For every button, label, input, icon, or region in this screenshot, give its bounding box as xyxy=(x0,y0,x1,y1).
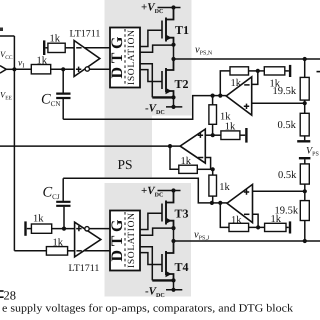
wire: U3 minus input step xyxy=(205,158,210,170)
wire: cutoff comparator tip to node xyxy=(6,68,14,70)
U5 input polarity symbols xyxy=(244,189,250,214)
polarity dash at right edge xyxy=(317,71,320,73)
DTG bottom dashed divider xyxy=(124,212,126,269)
svg-text:T4: T4 xyxy=(175,260,189,274)
ground bar for R2 xyxy=(43,40,45,55)
wire: R1 to op-amp U1 + input, C_CN tap xyxy=(51,68,74,70)
resistor R10 1k U4 ground leg xyxy=(264,67,285,75)
wire: C_CN top lead xyxy=(62,69,64,92)
wire: input comparator box top edge xyxy=(0,35,14,37)
svg-text:e supply voltages for op-amps,: e supply voltages for op-amps, comparato… xyxy=(2,303,294,315)
wire: U3 feedback loop down-left xyxy=(170,146,179,169)
transistor T2 (NMOS lower of top half-bridge) xyxy=(162,59,174,97)
ground bar for R7 xyxy=(245,128,247,143)
resistor R1 1k (top series) xyxy=(31,65,50,74)
node: C_CJ tap on + line xyxy=(62,227,66,231)
U2 output bubble xyxy=(85,227,89,231)
capacitor C_CJ xyxy=(56,202,70,206)
node: divider tap bottom xyxy=(303,189,307,193)
node: -VDC2 stub xyxy=(171,288,175,292)
wire: bottom-right op-amp output line xyxy=(212,202,220,204)
node: v_PS,J / divider xyxy=(303,239,307,243)
wire: T4 source node to -VDC stub xyxy=(173,280,175,289)
wire: 19.5k #2 to v_PS,J xyxy=(304,221,306,242)
node: U4 output feedback junction xyxy=(218,94,222,98)
wire: U2 output Qbar (bubble) to DTG2 input 1 xyxy=(90,228,110,230)
wire: C_CJ bottom lead to plus node xyxy=(63,207,65,229)
DTG top dashed divider xyxy=(124,29,126,86)
transistor T3 (NMOS upper of bottom half-bridge) xyxy=(162,191,174,228)
node: T2 source xyxy=(171,95,175,99)
transistor T4 (NMOS lower of bottom half-bridge) xyxy=(162,241,174,280)
wire: U2 output Q to DTG2 input 2 xyxy=(84,250,110,252)
svg-text:DTG: DTG xyxy=(109,219,126,262)
svg-text:T3: T3 xyxy=(175,207,189,221)
U3 input polarity symbols xyxy=(198,133,204,158)
resistor R6 1k vertical upper xyxy=(209,105,217,125)
wire: U4 plus input from divider tap xyxy=(252,102,305,104)
node: T3 source ref xyxy=(171,226,175,230)
wire: 19.5k to tap xyxy=(304,100,306,113)
op-amp U2 LT1711 bottom xyxy=(75,222,101,257)
wire: -VDC stub top xyxy=(166,106,182,108)
DTG isolation block top xyxy=(110,28,140,88)
wire: vertical 1k upper leads xyxy=(212,96,214,136)
resistor R15 0.5k #2 xyxy=(300,164,309,184)
wire: return wire C_CN to top-right op-amp output node xyxy=(63,96,212,120)
resistor R12 1k U5 ground leg xyxy=(265,223,286,231)
wire: 0.5k #2 to tap 2 xyxy=(304,184,306,201)
resistor R11 1k U5 feedback xyxy=(229,223,249,231)
ground bar top divider xyxy=(297,140,310,142)
comparator tip (cut off at edge) xyxy=(0,66,6,74)
svg-text:0.5k: 0.5k xyxy=(278,120,297,131)
svg-text:1k: 1k xyxy=(50,34,61,45)
DTG isolation block bottom xyxy=(110,211,140,271)
wire: U4 feedback loop up from output node xyxy=(220,71,230,96)
node: v_I tap xyxy=(12,67,16,71)
node: U5 output / 1k junction xyxy=(210,201,214,205)
node: U5 output feedback junction xyxy=(218,201,222,205)
svg-text:1k: 1k xyxy=(231,78,242,89)
shaded band: bottom DTG/transistor block xyxy=(105,183,192,297)
node: +VDC/T1 drain xyxy=(171,5,175,9)
resistor R13 19.5k xyxy=(300,77,309,100)
wire: DTG out w1 to T1 gate xyxy=(140,30,162,46)
figure number fragment xyxy=(0,289,16,303)
ground bar for R10 xyxy=(289,65,291,77)
wire: DTG out w4 to T2 gate xyxy=(140,70,162,82)
resistor R2 1k (top grounded) xyxy=(48,43,65,52)
wire: U3 feedback resistor to minus node xyxy=(197,168,212,170)
svg-text:LT1711: LT1711 xyxy=(70,29,101,40)
wire: v_I vertical rail from cutoff box down to bottom channel xyxy=(13,36,15,251)
svg-text:ISOLATION: ISOLATION xyxy=(127,213,137,268)
node: +VDC2/T3 drain xyxy=(171,188,175,192)
svg-text:T1: T1 xyxy=(175,23,189,37)
wire: U3 plus input to node xyxy=(205,134,221,136)
label fragment top-left corner xyxy=(0,28,3,32)
ground bar bottom divider xyxy=(299,157,311,159)
wire: U4 feedback resistor to junction xyxy=(249,70,265,72)
svg-text:DTG: DTG xyxy=(109,36,126,79)
wire: bottom channel T-bar to 1k xyxy=(27,228,32,230)
resistor R7 1k horizontal at U3 plus node xyxy=(221,131,240,140)
U1 input polarity symbols xyxy=(76,48,82,72)
node: U3 minus node xyxy=(211,167,215,171)
svg-text:1k: 1k xyxy=(271,214,282,225)
resistor R9 1k U4 feedback xyxy=(230,67,249,75)
resistor R8 1k vertical lower xyxy=(209,175,217,196)
node: v_PS,N xyxy=(171,57,175,61)
wire: bottom 1k to U2 plus input xyxy=(52,228,75,230)
wire: U4 ground 1k to T-bar xyxy=(285,70,289,72)
node: v_PS,J xyxy=(171,239,175,243)
wire: C_CN bottom lead down to return wire xyxy=(62,99,64,119)
ground bar for R12 xyxy=(289,221,291,233)
wire: U5 feedback resistor to junction xyxy=(249,226,265,228)
wire: +VDC rail bottom xyxy=(158,190,181,192)
svg-text:1k: 1k xyxy=(181,156,192,167)
wire: node to 1k ground resistor, T-bar xyxy=(240,134,245,136)
wire: T4 source line (thick) xyxy=(152,279,173,281)
node: U3 plus node xyxy=(211,133,215,137)
wire: DTG2 out w1 to T3 gate xyxy=(140,213,162,229)
svg-text:19.5k: 19.5k xyxy=(273,86,297,97)
svg-text:0.5k: 0.5k xyxy=(278,170,297,181)
wire: +VDC rail top xyxy=(158,7,181,9)
svg-text:ISOLATION: ISOLATION xyxy=(127,30,137,85)
shaded band: DTG/PS column upper xyxy=(105,0,192,116)
capacitor C_CN xyxy=(56,94,70,98)
resistor R16 19.5k #2 xyxy=(300,201,309,221)
node: C_CN tap on + line xyxy=(61,67,65,71)
wire: U5 ground 1k to T-bar xyxy=(286,226,289,228)
node/net: v_PS,N output line xyxy=(174,58,320,60)
svg-text:LT1711: LT1711 xyxy=(69,263,100,274)
op-amp U3 center (points left) xyxy=(180,129,205,163)
node: -VDC stub xyxy=(171,105,175,109)
U2 input polarity symbols xyxy=(76,226,82,251)
wire: U5 plus input from divider tap 2 xyxy=(253,190,305,192)
svg-text:1k: 1k xyxy=(231,215,242,226)
U1 output bubble xyxy=(85,67,89,71)
wire: C_CJ return wire to bottom-right op-amp output node xyxy=(63,178,212,203)
wire: T2 source line (thick) xyxy=(152,96,173,98)
resistor R3 1k (bottom grounded) xyxy=(31,224,51,233)
op-amp U1 LT1711 top xyxy=(74,41,100,77)
node: U4 feedback/ground junction xyxy=(256,69,260,73)
wire: T2 source node to -VDC stub xyxy=(173,97,175,107)
wire: bottom channel series input xyxy=(14,250,46,252)
node: v_PS,N / divider xyxy=(303,57,307,61)
wire: U1 output Q to DTG input 1 xyxy=(85,47,111,49)
wire: ground bar to R2 xyxy=(45,47,48,49)
wire: v_I node to series resistor R1 xyxy=(14,68,31,70)
resistor R14 0.5k xyxy=(300,113,309,136)
svg-text:1k: 1k xyxy=(53,238,64,249)
wire: U5 minus input step xyxy=(253,214,259,227)
wire: DTG2 out w2 to T3 source reference node xyxy=(140,228,174,235)
node: U5 feedback/ground junction xyxy=(256,225,260,229)
svg-text:1k: 1k xyxy=(33,214,44,225)
wire: R2 to U1 - input xyxy=(65,47,74,49)
svg-text:28: 28 xyxy=(4,289,17,303)
wire: bottom series 1k to U2 minus input xyxy=(68,250,75,252)
wire: U4 minus input step from feedback node xyxy=(252,71,258,85)
wire: T1 source node to output node xyxy=(173,44,175,59)
shaded band: PS column middle xyxy=(105,116,153,178)
resistor R5 1k U3 feedback xyxy=(179,165,198,173)
op-amp U5 bottom-right (points left) xyxy=(227,184,253,222)
svg-text:1k: 1k xyxy=(225,122,236,133)
wire: C_CJ top lead up to return wire xyxy=(62,178,64,201)
U4 input polarity symbols xyxy=(244,85,250,109)
wire: -VDC stub bottom xyxy=(166,289,182,291)
wire: vertical 1k lower leads xyxy=(212,169,214,203)
ground bar for R3 xyxy=(24,221,26,235)
wire: U1 output Qbar (from bubble) to DTG input 2 xyxy=(90,68,110,70)
wire: DTG2 out w4 to T4 gate xyxy=(140,253,162,265)
wire: output node to tip U5 xyxy=(220,202,227,204)
node: T4 source xyxy=(171,278,175,282)
wire: DTG out w2 to T1 source reference node xyxy=(140,45,174,52)
op-amp U4 top-right (points left) xyxy=(226,77,252,115)
transistor T1 (NMOS upper of top half-bridge) xyxy=(162,8,174,45)
node: U4 output / 1k junction xyxy=(211,94,215,98)
svg-text:PS: PS xyxy=(118,157,133,172)
node: divider tap top xyxy=(303,101,307,105)
svg-text:1k: 1k xyxy=(37,56,48,67)
svg-text:1k: 1k xyxy=(219,182,230,193)
wire: DTG out w3 to T2 source reference xyxy=(140,64,152,98)
wire: top-right op-amp output line xyxy=(213,95,227,97)
node/net: v_PS,J output line xyxy=(174,240,320,242)
node: T1 source ref xyxy=(171,43,175,47)
wire: 0.5k to ground bar xyxy=(304,136,306,140)
node: PS output xyxy=(168,144,172,148)
wire: PS output line from center op-amp U3 xyxy=(0,145,180,147)
resistor R4 1k (bottom series) xyxy=(46,247,67,256)
wire: U5 feedback loop down from output node xyxy=(220,203,229,228)
svg-text:T2: T2 xyxy=(175,77,189,91)
wire: divider top lead from v_PS,N xyxy=(304,59,306,77)
wire: DTG2 out w3 to T4 source reference xyxy=(140,247,152,281)
wire: ground bar 2 to 0.5k #2 xyxy=(304,159,306,164)
wire: T3 source node to output node xyxy=(173,228,175,241)
